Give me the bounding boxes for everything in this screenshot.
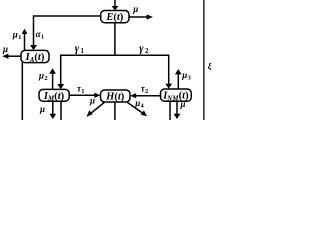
wire: gamma1 drop into I_M(t) xyxy=(57,44,84,90)
wire: mu down arrow below I_M(t) xyxy=(39,101,56,119)
wire: mu diagonal down-left from H(t) xyxy=(87,96,105,117)
compartment H(t) xyxy=(101,90,131,102)
wire: mu down arrow below I_NM(t) xyxy=(174,99,186,119)
wire: line from I_A(t) bottom to page bottom xyxy=(21,63,23,120)
svg-text:μ: μ xyxy=(39,104,45,114)
wire: plain line below I_M(t) xyxy=(60,101,62,120)
wire: plain line below I_NM(t) xyxy=(169,101,171,120)
svg-text:E(t): E(t) xyxy=(105,12,123,23)
wire: gamma2 drop into I_NM(t) xyxy=(139,44,172,89)
wire: arrow from top into E(t) xyxy=(112,0,119,11)
wire: mu3 up arrow from I_NM(t) top xyxy=(175,69,192,89)
svg-text:IM(t): IM(t) xyxy=(43,91,65,103)
wire: H(t) bottom stem xyxy=(114,102,116,120)
wire: mu output arrow from E(t) right xyxy=(129,4,153,20)
wire: E(t) bottom stem xyxy=(114,23,116,56)
wire: mu left arrow out of I_A(t) xyxy=(2,44,21,59)
svg-text:ξ: ξ xyxy=(208,61,212,71)
svg-text:μ: μ xyxy=(89,96,95,106)
compartment I_M(t) xyxy=(39,89,69,102)
wire: xi vertical boundary line xyxy=(203,0,205,120)
compartment I_A(t) xyxy=(21,50,49,63)
wire: mu2 up arrow from I_M(t) top xyxy=(38,68,56,89)
wire: mu1 up arrow from I_A(t) top xyxy=(12,29,28,51)
svg-text:IA(t): IA(t) xyxy=(25,52,45,64)
wire: elbow from E(t) left down to I_A(t), alpha1 xyxy=(30,16,101,50)
wire: branch horizontal gamma line xyxy=(61,54,169,56)
compartment E(t) xyxy=(101,11,129,24)
svg-text:μ: μ xyxy=(132,4,138,14)
svg-text:H(t): H(t) xyxy=(105,91,125,102)
svg-text:μ: μ xyxy=(2,44,8,54)
compartment I_NM(t) xyxy=(161,89,192,102)
wire: tau2 arrow I_NM(t) to H(t) xyxy=(130,84,161,99)
wire: mu4 diagonal down-right from H(t) xyxy=(128,98,148,116)
wire: tau1 arrow I_M(t) to H(t) xyxy=(69,84,100,98)
